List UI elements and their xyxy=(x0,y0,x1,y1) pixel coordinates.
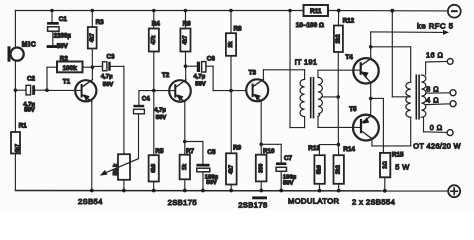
wire IT191 secondary bottom to T5 base xyxy=(318,126,360,128)
potentiometer 50k xyxy=(100,154,139,190)
wire bias node down to divider xyxy=(337,97,339,145)
resistor R1 xyxy=(11,122,27,153)
node T2 collector / R6 / C6 xyxy=(184,64,188,68)
svg-text:R13: R13 xyxy=(308,145,320,152)
transistor T5 xyxy=(349,106,379,140)
svg-text:C7: C7 xyxy=(284,155,293,162)
resistor R12 xyxy=(334,11,355,97)
terminal plus (supply) xyxy=(448,185,460,197)
svg-text:4,7µ: 4,7µ xyxy=(194,74,206,80)
wire T4 collector up to RFC line xyxy=(370,32,372,58)
svg-text:R15: R15 xyxy=(392,152,404,159)
wire pot wiper to C4 xyxy=(138,114,140,159)
svg-text:2k2: 2k2 xyxy=(336,34,342,43)
svg-text:R5: R5 xyxy=(155,148,164,155)
wire supply rail to IT191 primary bottom xyxy=(290,11,305,128)
node T1 collector / R2 / R3 / C3 xyxy=(91,65,95,69)
svg-text:R7: R7 xyxy=(186,148,195,155)
svg-text:T5: T5 xyxy=(349,106,357,113)
svg-text:4k7: 4k7 xyxy=(90,33,96,42)
svg-text:MIC: MIC xyxy=(22,42,37,49)
wire left rail upper (rail to MIC) xyxy=(14,11,16,48)
svg-text:T1: T1 xyxy=(63,78,71,85)
svg-text:IT 191: IT 191 xyxy=(295,57,318,66)
transformer OT 426/20W xyxy=(406,75,461,151)
wire left rail C2 node to R1 xyxy=(14,90,16,132)
resistor R5 xyxy=(149,91,164,191)
svg-text:4k7: 4k7 xyxy=(228,165,234,174)
svg-text:50V: 50V xyxy=(103,82,114,88)
svg-text:R2: R2 xyxy=(60,55,69,62)
transistor T1 xyxy=(47,67,96,190)
svg-text:47k: 47k xyxy=(151,36,157,45)
tap 4 ohm xyxy=(426,96,456,107)
svg-text:C2: C2 xyxy=(27,75,36,82)
node C2/R2/T1 base xyxy=(14,88,18,92)
transistor T3 xyxy=(246,70,268,145)
wire T5 collector to OT primary bottom xyxy=(372,117,411,146)
resistor R10 xyxy=(256,144,275,190)
resistor R8 xyxy=(226,11,242,91)
svg-text:OT 426/20 W: OT 426/20 W xyxy=(413,141,461,150)
wire C3 to potentiometer xyxy=(123,66,125,154)
svg-text:50V: 50V xyxy=(195,82,206,88)
capacitor C3 xyxy=(92,53,124,88)
svg-text:R10: R10 xyxy=(263,148,275,155)
wire C6 to T3 base xyxy=(212,66,214,90)
svg-text:8 Ω: 8 Ω xyxy=(426,84,439,93)
svg-text:5k6: 5k6 xyxy=(317,165,323,174)
svg-text:10–100 Ω: 10–100 Ω xyxy=(296,22,324,29)
wire left rail MIC to C2 node xyxy=(14,61,16,90)
svg-text:50V: 50V xyxy=(206,180,217,186)
transistor T2 xyxy=(154,66,191,141)
terminal minus (supply) xyxy=(448,5,461,18)
svg-text:4k7: 4k7 xyxy=(15,144,21,153)
svg-text:R3: R3 xyxy=(96,19,105,26)
transformer IT191 xyxy=(295,57,339,127)
svg-text:R12: R12 xyxy=(343,18,355,25)
svg-text:4k7: 4k7 xyxy=(183,36,189,45)
resistor R6 xyxy=(180,11,191,67)
capacitor C4 xyxy=(133,91,166,121)
wire to OT primary top xyxy=(371,47,411,82)
svg-text:R1: R1 xyxy=(19,122,28,129)
resistor R7 xyxy=(180,142,195,191)
svg-text:C3: C3 xyxy=(107,53,116,60)
node R8/R9/T3 base xyxy=(229,89,233,93)
wire IT191 secondary top to T4 base xyxy=(318,69,360,71)
node R13/R14 xyxy=(337,143,341,147)
wire T4 emitter / T5 emitter junction xyxy=(370,83,372,116)
svg-text:2SB178: 2SB178 xyxy=(238,201,267,210)
svg-text:MODULATOR: MODULATOR xyxy=(288,197,340,206)
capacitor C1 xyxy=(47,11,72,50)
node common emitters / R15 xyxy=(369,97,373,101)
svg-text:1Ω: 1Ω xyxy=(382,161,388,169)
wire R1 to bottom rail xyxy=(14,154,16,191)
svg-text:50 k: 50 k xyxy=(113,163,119,175)
svg-text:2SB54: 2SB54 xyxy=(78,197,103,206)
svg-text:C6: C6 xyxy=(207,56,216,63)
svg-text:16 Ω: 16 Ω xyxy=(426,51,443,60)
wire top supply rail (left of R11) xyxy=(15,10,303,12)
junction dash below R10 xyxy=(252,196,267,199)
resistor R14 xyxy=(334,145,356,191)
svg-text:R8: R8 xyxy=(234,25,243,32)
node T2 emitter / R7 / C5 xyxy=(183,140,187,144)
svg-text:2k: 2k xyxy=(228,42,234,48)
svg-text:2 x 2SB554: 2 x 2SB554 xyxy=(352,198,395,207)
node bias / center tap xyxy=(336,95,340,99)
resistor R13 xyxy=(308,145,338,191)
svg-text:T4: T4 xyxy=(345,54,353,61)
svg-text:2k2: 2k2 xyxy=(336,165,342,174)
capacitor C6 xyxy=(186,56,216,88)
svg-text:50V: 50V xyxy=(283,180,294,186)
svg-text:50V: 50V xyxy=(24,108,35,114)
svg-text:50V: 50V xyxy=(156,115,167,121)
svg-text:R11: R11 xyxy=(310,8,322,15)
svg-text:2200µ: 2200µ xyxy=(54,32,72,39)
resistor R9 xyxy=(226,91,242,191)
tap 8 ohm xyxy=(426,84,456,95)
svg-text:5 W: 5 W xyxy=(395,163,409,172)
tap 16 ohm xyxy=(426,51,454,75)
wire top supply rail (right of R11) xyxy=(328,10,448,12)
svg-text:T3: T3 xyxy=(249,70,257,77)
svg-text:R4: R4 xyxy=(152,21,161,28)
svg-text:C1: C1 xyxy=(59,16,68,23)
node T1 emitter at ground xyxy=(90,189,94,193)
wire T3 collector to IT191 primary xyxy=(263,69,304,71)
svg-text:R6: R6 xyxy=(183,21,192,28)
svg-text:2SB175: 2SB175 xyxy=(168,198,197,207)
resistor R3 xyxy=(88,11,104,68)
svg-text:T2: T2 xyxy=(162,72,170,79)
node T4 collector / OT primary top xyxy=(369,45,373,49)
svg-text:4 Ω: 4 Ω xyxy=(426,96,439,105)
node R4/R5/T2 base xyxy=(152,89,156,93)
wire bottom ground rail xyxy=(15,190,448,192)
svg-text:1k: 1k xyxy=(182,164,188,170)
svg-text:ke RFC 5: ke RFC 5 xyxy=(417,21,453,30)
svg-text:C4: C4 xyxy=(142,96,151,103)
svg-text:R9: R9 xyxy=(233,145,242,152)
svg-text:100k: 100k xyxy=(63,65,78,72)
svg-text:0 Ω: 0 Ω xyxy=(430,123,443,132)
resistor R4 xyxy=(149,11,160,91)
wire supply rail to OT primary center tap xyxy=(392,11,410,97)
svg-text:4,7µ: 4,7µ xyxy=(101,74,113,80)
capacitor C5 xyxy=(185,142,219,191)
capacitor C2 xyxy=(15,75,47,113)
tap 0 ohm xyxy=(424,117,454,135)
svg-text:4,7µ: 4,7µ xyxy=(154,107,166,113)
arrow ke RFC 5 xyxy=(371,21,454,35)
svg-text:390: 390 xyxy=(258,164,264,173)
transistor T4 xyxy=(345,54,378,83)
svg-text:C5: C5 xyxy=(207,149,216,156)
node T3 emitter / R10 / C7 xyxy=(259,143,263,147)
capacitor C7 xyxy=(261,144,297,190)
microphone MIC xyxy=(8,42,37,62)
resistor R15 xyxy=(380,152,410,191)
svg-text:6k8: 6k8 xyxy=(151,164,157,173)
svg-text:R14: R14 xyxy=(343,146,355,153)
svg-text:50V: 50V xyxy=(57,43,69,50)
resistor R2 xyxy=(47,55,92,90)
resistor R11 xyxy=(296,5,328,29)
